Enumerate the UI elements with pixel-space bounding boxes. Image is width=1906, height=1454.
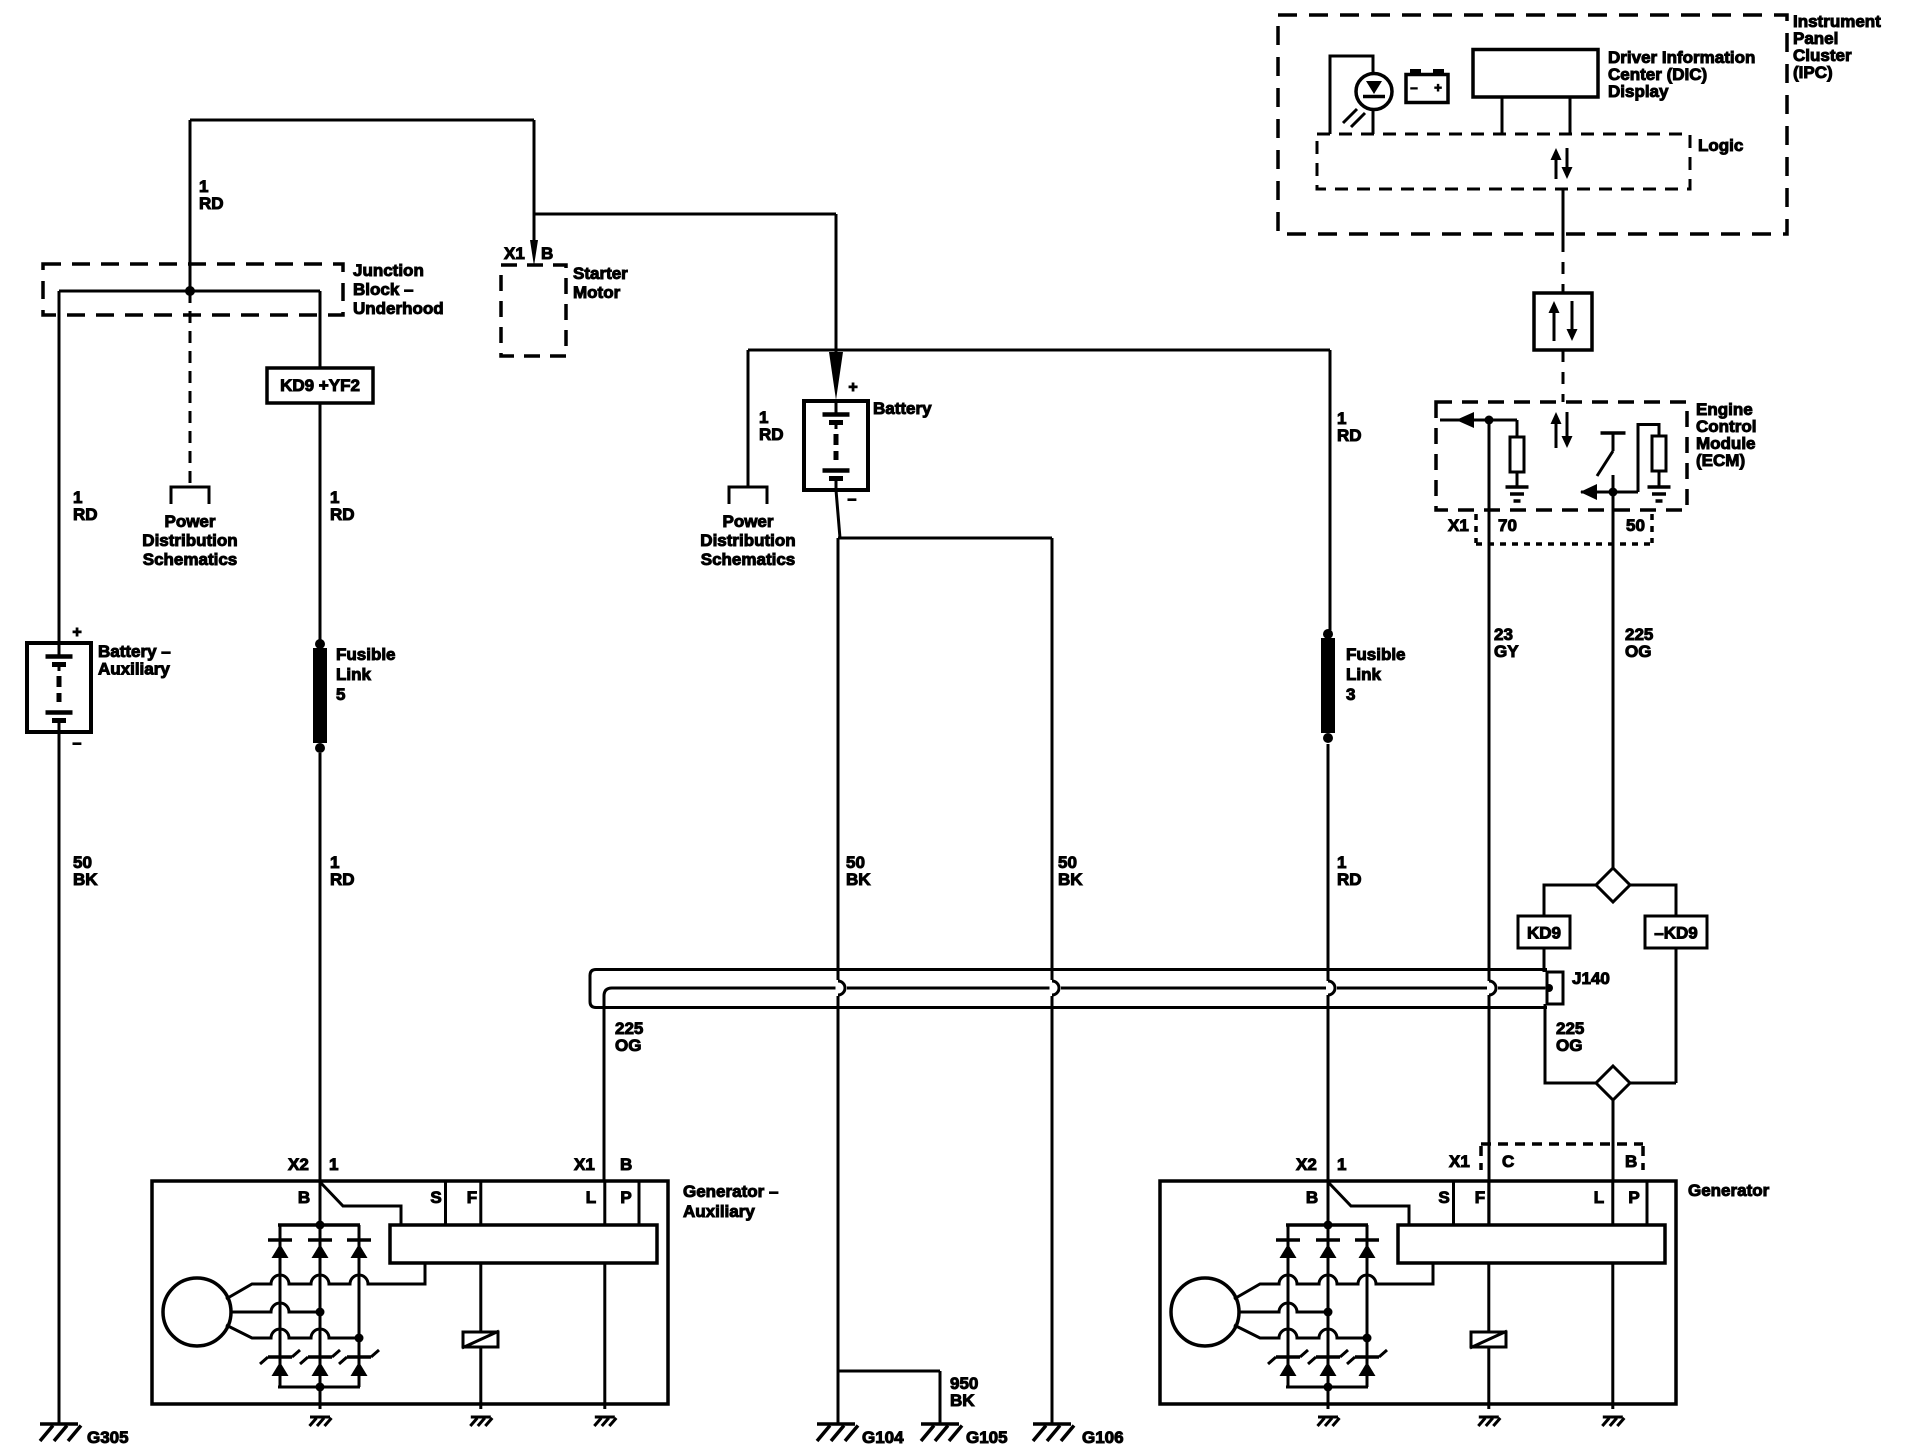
svg-text:C: C <box>1502 1152 1514 1171</box>
svg-text:Display: Display <box>1608 82 1669 101</box>
svg-text:+: + <box>72 624 81 641</box>
svg-text:RD: RD <box>73 505 98 524</box>
svg-text:L: L <box>586 1188 596 1207</box>
svg-text:OG: OG <box>615 1036 641 1055</box>
svg-text:B: B <box>1306 1188 1318 1207</box>
svg-text:Schematics: Schematics <box>701 550 796 569</box>
svg-text:RD: RD <box>1337 870 1362 889</box>
svg-text:X2: X2 <box>1296 1155 1317 1174</box>
svg-text:OG: OG <box>1556 1036 1582 1055</box>
svg-text:Distribution: Distribution <box>700 531 795 550</box>
svg-text:X1: X1 <box>574 1155 595 1174</box>
svg-text:S: S <box>430 1188 441 1207</box>
svg-text:Distribution: Distribution <box>142 531 237 550</box>
svg-text:Link: Link <box>336 665 371 684</box>
svg-text:Auxiliary: Auxiliary <box>683 1202 755 1221</box>
svg-text:B: B <box>541 244 553 263</box>
svg-text:X1: X1 <box>504 244 525 263</box>
svg-text:X1: X1 <box>1449 1152 1470 1171</box>
svg-text:–: – <box>848 491 857 508</box>
svg-text:RD: RD <box>759 425 784 444</box>
svg-text:Battery –: Battery – <box>98 642 171 661</box>
svg-text:KD9: KD9 <box>1527 924 1561 943</box>
svg-text:(IPC): (IPC) <box>1793 63 1833 82</box>
svg-text:B: B <box>1625 1152 1637 1171</box>
svg-text:J140: J140 <box>1572 969 1610 988</box>
svg-text:70: 70 <box>1498 516 1517 535</box>
svg-text:–: – <box>1410 80 1417 95</box>
svg-text:Generator: Generator <box>1688 1181 1770 1200</box>
svg-text:Fusible: Fusible <box>336 645 396 664</box>
svg-text:5: 5 <box>336 685 345 704</box>
svg-text:Link: Link <box>1346 665 1381 684</box>
svg-text:Block –: Block – <box>353 280 413 299</box>
svg-text:(ECM): (ECM) <box>1696 451 1745 470</box>
svg-text:Battery: Battery <box>873 399 932 418</box>
svg-text:RD: RD <box>1337 426 1362 445</box>
svg-text:F: F <box>1475 1188 1485 1207</box>
svg-text:G305: G305 <box>87 1428 129 1447</box>
svg-text:+: + <box>1434 80 1442 95</box>
svg-text:Power: Power <box>164 512 215 531</box>
svg-text:GY: GY <box>1494 642 1519 661</box>
svg-text:Motor: Motor <box>573 283 621 302</box>
svg-text:1: 1 <box>1337 1155 1346 1174</box>
svg-text:BK: BK <box>1058 870 1083 889</box>
svg-text:KD9 +YF2: KD9 +YF2 <box>280 376 360 395</box>
svg-text:3: 3 <box>1346 685 1355 704</box>
svg-text:Auxiliary: Auxiliary <box>98 660 170 679</box>
svg-text:Starter: Starter <box>573 264 628 283</box>
svg-text:1: 1 <box>329 1155 338 1174</box>
svg-text:BK: BK <box>950 1391 975 1410</box>
svg-text:BK: BK <box>846 870 871 889</box>
svg-text:L: L <box>1594 1188 1604 1207</box>
svg-text:X2: X2 <box>288 1155 309 1174</box>
svg-text:F: F <box>467 1188 477 1207</box>
svg-text:Generator –: Generator – <box>683 1182 778 1201</box>
svg-text:–: – <box>73 735 82 752</box>
svg-text:Logic: Logic <box>1698 136 1743 155</box>
svg-text:RD: RD <box>199 194 224 213</box>
svg-text:Schematics: Schematics <box>143 550 238 569</box>
svg-text:B: B <box>298 1188 310 1207</box>
svg-text:X1: X1 <box>1448 516 1469 535</box>
svg-text:G106: G106 <box>1082 1428 1124 1447</box>
svg-text:Fusible: Fusible <box>1346 645 1406 664</box>
svg-text:S: S <box>1438 1188 1449 1207</box>
svg-text:G105: G105 <box>966 1428 1008 1447</box>
svg-text:P: P <box>1628 1188 1639 1207</box>
svg-text:OG: OG <box>1625 642 1651 661</box>
svg-text:G104: G104 <box>862 1428 904 1447</box>
svg-text:+: + <box>848 379 857 396</box>
svg-text:Junction: Junction <box>353 261 424 280</box>
svg-text:P: P <box>620 1188 631 1207</box>
svg-text:RD: RD <box>330 505 355 524</box>
svg-text:Power: Power <box>722 512 773 531</box>
svg-text:Underhood: Underhood <box>353 299 444 318</box>
svg-text:RD: RD <box>330 870 355 889</box>
svg-text:B: B <box>620 1155 632 1174</box>
svg-text:50: 50 <box>1626 516 1645 535</box>
svg-text:–KD9: –KD9 <box>1654 924 1697 943</box>
svg-text:BK: BK <box>73 870 98 889</box>
